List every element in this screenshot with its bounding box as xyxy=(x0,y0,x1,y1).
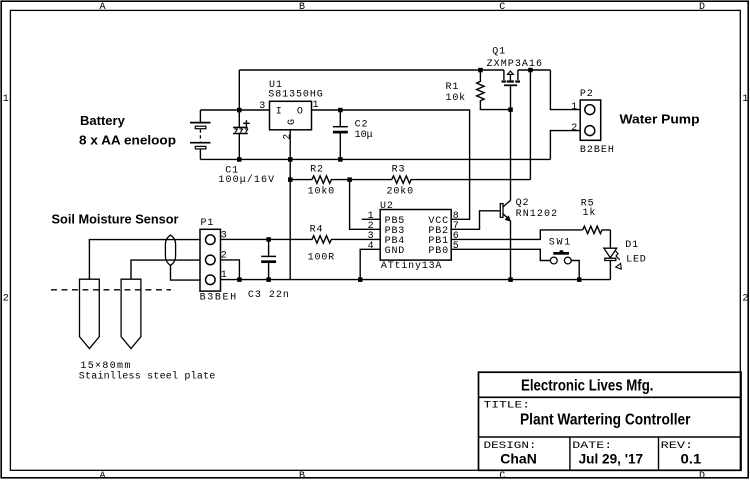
svg-text:100μ/16V: 100μ/16V xyxy=(218,174,274,186)
wire P2 pin1 to drain rail xyxy=(550,70,580,110)
svg-text:ATtiny13A: ATtiny13A xyxy=(381,260,442,272)
wire R5 to LED anode xyxy=(609,230,611,248)
capacitor C1 xyxy=(233,70,250,159)
svg-text:100R: 100R xyxy=(308,252,335,263)
junction SW1 GND xyxy=(577,277,582,282)
junction divider R2/R3 xyxy=(347,177,352,182)
junction R4 left xyxy=(266,237,271,242)
svg-text:C: C xyxy=(499,471,505,480)
svg-text:3: 3 xyxy=(221,231,227,242)
svg-text:8 x AA eneloop: 8 x AA eneloop xyxy=(79,133,176,148)
wire top rail battery to U1 pin3 xyxy=(200,109,269,111)
junction C2 bottom xyxy=(338,157,343,162)
svg-text:LED: LED xyxy=(626,255,646,266)
svg-text:P2: P2 xyxy=(580,89,593,100)
svg-text:I: I xyxy=(276,106,282,117)
resistor R4 xyxy=(221,236,381,243)
soil sensor plate right xyxy=(121,260,200,349)
wire GND rail lower xyxy=(221,279,611,281)
svg-text:3: 3 xyxy=(259,101,265,112)
svg-text:C: C xyxy=(499,2,505,13)
svg-text:P1: P1 xyxy=(201,218,214,229)
junction U1 pin2 GND xyxy=(288,157,293,162)
svg-text:1: 1 xyxy=(3,94,9,105)
svg-text:D1: D1 xyxy=(625,240,638,251)
wire Q1 gate down to Q2 collector xyxy=(510,85,512,200)
wire U1 pin1 3V rail xyxy=(312,110,470,219)
wire U2 pin7 to Q2 base xyxy=(451,211,500,230)
svg-text:PB0: PB0 xyxy=(428,246,448,257)
svg-text:2: 2 xyxy=(571,123,577,134)
svg-text:1: 1 xyxy=(313,100,319,111)
svg-text:5: 5 xyxy=(453,241,459,252)
transistor Q2 xyxy=(500,200,510,279)
capacitor C2 xyxy=(333,110,348,159)
capacitor C3 xyxy=(261,239,276,279)
svg-text:Q2: Q2 xyxy=(516,198,529,209)
junction C2 top xyxy=(338,108,343,113)
mosfet Q1 xyxy=(502,70,521,85)
svg-text:B2BEH: B2BEH xyxy=(580,145,614,156)
connector P2 xyxy=(580,100,601,140)
wire U2 pin6 to R5 xyxy=(451,230,582,240)
junction R1 top xyxy=(478,68,483,73)
svg-text:Electronic Lives Mfg.: Electronic Lives Mfg. xyxy=(521,377,654,394)
junction R1 bottom at gate xyxy=(508,107,513,112)
svg-text:Battery: Battery xyxy=(80,113,126,128)
svg-text:0.1: 0.1 xyxy=(681,451,702,467)
svg-text:RN1202: RN1202 xyxy=(516,209,558,220)
junction C1 bottom xyxy=(237,157,242,162)
resistor R2 xyxy=(290,176,349,183)
svg-text:Water Pump: Water Pump xyxy=(620,112,700,127)
svg-text:O: O xyxy=(297,106,303,117)
wire Q1 drain to R3 xyxy=(529,70,531,180)
soil sensor plate left xyxy=(80,240,201,349)
wire U2 pin4 to GND xyxy=(360,249,380,279)
svg-text:ChaN: ChaN xyxy=(500,451,537,467)
junction Q2 emitter GND xyxy=(508,277,513,282)
svg-text:Q1: Q1 xyxy=(492,46,505,57)
svg-text:10μ: 10μ xyxy=(355,130,373,141)
wire U1 pin2 down xyxy=(289,130,291,280)
resistor R3 xyxy=(350,176,531,183)
svg-text:1k: 1k xyxy=(583,207,596,219)
svg-text:2: 2 xyxy=(3,294,9,305)
svg-text:TITLE:: TITLE: xyxy=(484,401,531,412)
wire drain rail left (source side) xyxy=(239,69,504,71)
svg-text:2: 2 xyxy=(282,134,293,140)
resistor R1 xyxy=(477,70,511,110)
svg-text:4: 4 xyxy=(368,241,374,252)
svg-text:SW1: SW1 xyxy=(549,237,571,248)
svg-text:1: 1 xyxy=(571,102,577,113)
title block xyxy=(479,372,742,470)
svg-text:C3 22n: C3 22n xyxy=(248,290,289,301)
LED D1 xyxy=(604,248,621,279)
IC U2 ATtiny13A xyxy=(380,210,451,261)
svg-text:D: D xyxy=(699,2,705,13)
junction Q1 drain xyxy=(528,68,533,73)
wire divider to U2 pin2 xyxy=(350,180,381,230)
svg-text:Plant Wartering Controller: Plant Wartering Controller xyxy=(520,412,691,429)
wire drain rail right xyxy=(518,69,551,71)
wire P2 pin2 to GND xyxy=(550,131,580,160)
svg-text:R3: R3 xyxy=(392,165,405,176)
svg-text:R1: R1 xyxy=(446,82,459,93)
svg-text:U2: U2 xyxy=(380,201,393,212)
switch SW1 xyxy=(550,250,579,279)
svg-text:G: G xyxy=(287,119,298,125)
svg-text:B3BEH: B3BEH xyxy=(200,292,237,303)
junction U2 GND xyxy=(358,277,363,282)
voltage regulator U1 xyxy=(270,101,312,130)
svg-text:10k0: 10k0 xyxy=(308,186,335,198)
svg-text:10k: 10k xyxy=(446,92,466,104)
svg-text:GND: GND xyxy=(385,246,405,257)
svg-text:ZXMP3A16: ZXMP3A16 xyxy=(487,59,542,70)
svg-text:A: A xyxy=(100,471,106,480)
svg-text:2: 2 xyxy=(221,251,227,262)
soil surface dashed line xyxy=(51,289,171,291)
svg-text:20k0: 20k0 xyxy=(387,186,414,198)
svg-text:2: 2 xyxy=(742,294,748,305)
svg-text:D: D xyxy=(699,471,705,480)
junction C3 bottom xyxy=(266,277,271,282)
svg-text:R4: R4 xyxy=(310,225,323,236)
svg-text:S81350HG: S81350HG xyxy=(268,90,323,101)
cable loop xyxy=(165,235,200,280)
svg-text:Soil Moisture Sensor: Soil Moisture Sensor xyxy=(52,212,179,227)
wire U2 pin5 to SW1 xyxy=(451,249,550,260)
battery BT xyxy=(190,110,211,159)
svg-text:Stainlless steel plate: Stainlless steel plate xyxy=(79,371,216,383)
svg-text:Jul 29, '17: Jul 29, '17 xyxy=(579,451,644,467)
svg-text:R2: R2 xyxy=(310,165,323,176)
svg-text:B: B xyxy=(299,471,305,480)
svg-text:1: 1 xyxy=(221,270,227,281)
connector P1 xyxy=(200,229,221,291)
svg-text:B: B xyxy=(299,2,305,13)
wire P1 pin2 to GND xyxy=(221,260,240,280)
wire U2 pin1 stub xyxy=(362,218,380,220)
resistor R5 xyxy=(583,226,611,233)
svg-text:1: 1 xyxy=(742,94,748,105)
wire GND rail upper xyxy=(200,158,550,160)
svg-text:A: A xyxy=(100,2,106,13)
junction P1 pin2 GND xyxy=(237,277,242,282)
junction C1 top xyxy=(237,108,242,113)
junction R2 left xyxy=(288,177,293,182)
